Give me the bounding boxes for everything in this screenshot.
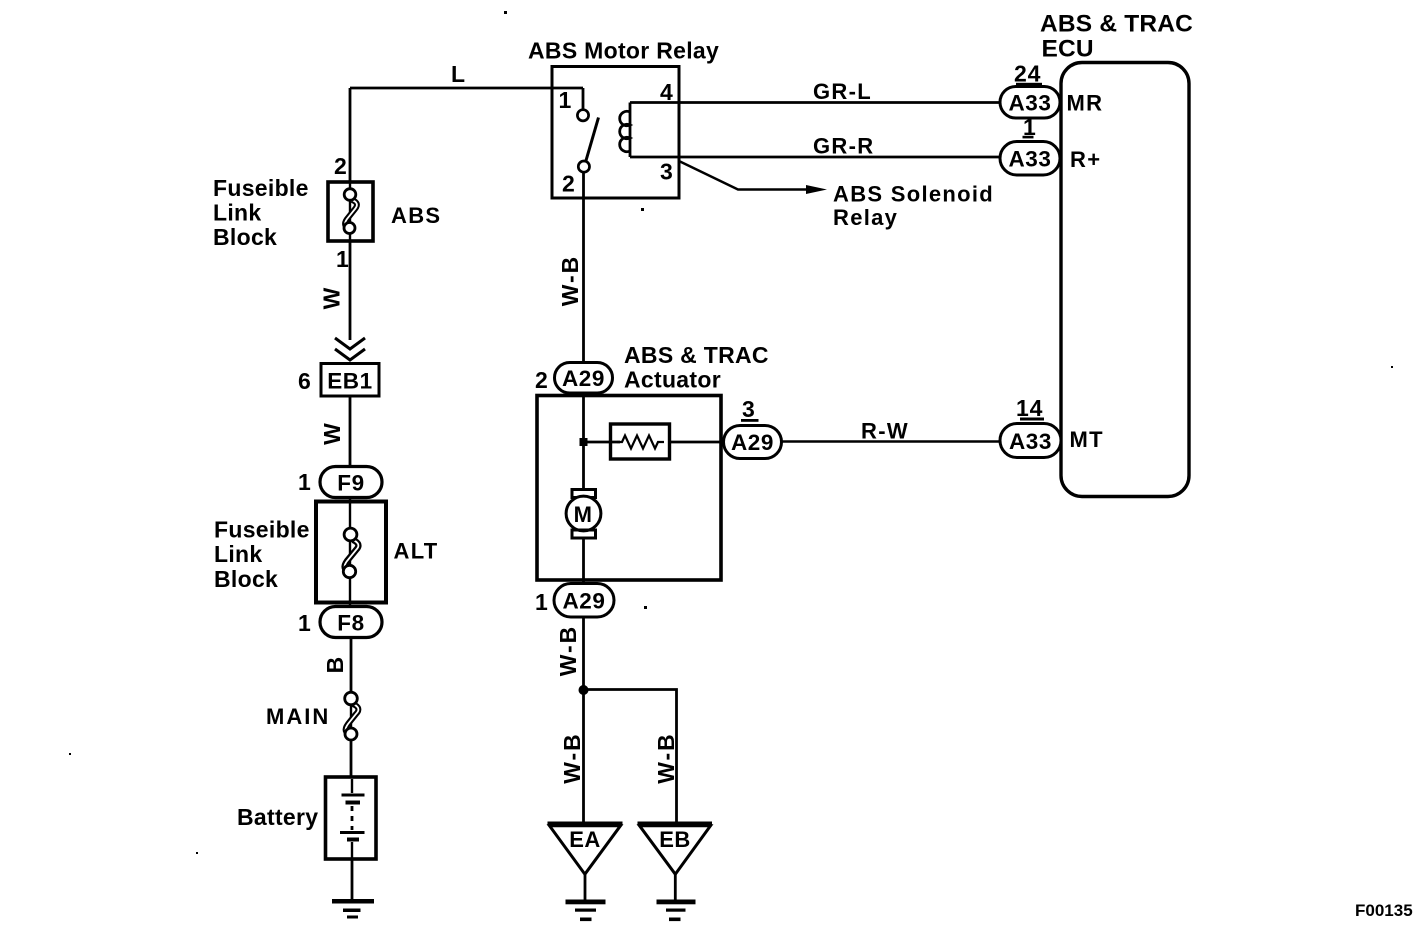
connector F8 xyxy=(320,607,382,638)
wire F8 to MAIN xyxy=(350,638,353,694)
svg-text:ABS & TRAC: ABS & TRAC xyxy=(624,342,769,368)
svg-text:2: 2 xyxy=(334,153,348,179)
wire A29 to EA ground xyxy=(582,617,585,822)
actuator box xyxy=(537,396,721,581)
svg-text:L: L xyxy=(451,61,465,87)
scan specks xyxy=(504,11,507,14)
connector A29 pin 2 xyxy=(555,363,613,394)
svg-text:ABS & TRAC: ABS & TRAC xyxy=(1040,11,1193,38)
svg-text:Block: Block xyxy=(213,224,277,250)
fuse MAIN xyxy=(345,692,359,740)
svg-text:Link: Link xyxy=(213,200,261,226)
svg-text:F00135: F00135 xyxy=(1355,901,1413,920)
resistor xyxy=(587,424,724,459)
svg-text:A29: A29 xyxy=(562,589,605,614)
junction dot xyxy=(580,438,588,446)
wire R-W xyxy=(782,440,1002,442)
wire GR-L xyxy=(630,101,1001,104)
wire fuse to EB1 xyxy=(349,241,352,340)
svg-text:W: W xyxy=(319,286,345,310)
svg-text:M: M xyxy=(574,502,594,527)
svg-text:Link: Link xyxy=(214,541,262,567)
svg-text:ABS: ABS xyxy=(391,203,441,228)
svg-text:2: 2 xyxy=(535,367,549,393)
svg-text:GR-R: GR-R xyxy=(813,134,874,159)
motor M xyxy=(566,490,601,539)
svg-text:ECU: ECU xyxy=(1042,36,1094,63)
solenoid arrow head xyxy=(806,185,827,194)
svg-text:EB: EB xyxy=(659,827,691,852)
svg-text:ALT: ALT xyxy=(394,539,439,564)
connector A33 R+ xyxy=(1000,142,1060,176)
svg-text:A29: A29 xyxy=(731,430,774,455)
svg-text:3: 3 xyxy=(742,396,756,422)
svg-text:1: 1 xyxy=(535,589,549,615)
svg-text:Fuseible: Fuseible xyxy=(214,517,310,543)
connector F9 xyxy=(320,467,382,498)
junction dot xyxy=(579,685,589,695)
svg-text:14: 14 xyxy=(1016,395,1043,421)
relay switch xyxy=(577,88,598,172)
wire down to ABS fuse xyxy=(349,88,352,182)
svg-text:MAIN: MAIN xyxy=(266,704,330,729)
svg-text:24: 24 xyxy=(1014,61,1041,87)
svg-text:W-B: W-B xyxy=(653,732,679,784)
relay coil xyxy=(629,103,632,158)
svg-text:W: W xyxy=(319,421,345,445)
relay box ABS Motor Relay xyxy=(552,67,679,199)
fusible link ALT box xyxy=(316,502,386,603)
svg-text:1: 1 xyxy=(336,246,350,272)
svg-text:ABS Solenoid: ABS Solenoid xyxy=(833,182,994,207)
svg-text:W-B: W-B xyxy=(555,625,581,677)
wire branch to EB ground xyxy=(584,690,677,823)
ground EB xyxy=(638,822,713,922)
ground (battery) xyxy=(332,899,374,919)
svg-text:3: 3 xyxy=(660,159,674,185)
wire EB1 to F9 xyxy=(349,396,352,467)
svg-text:MT: MT xyxy=(1070,427,1104,452)
svg-text:A33: A33 xyxy=(1008,91,1051,116)
svg-text:Fuseible: Fuseible xyxy=(213,175,309,201)
connector A29 pin 1 xyxy=(554,584,614,618)
wire GR-R xyxy=(630,156,1001,159)
svg-text:2: 2 xyxy=(562,171,576,197)
connector A33 MR xyxy=(1000,87,1060,119)
svg-text:Block: Block xyxy=(214,566,278,592)
wire battery to ground xyxy=(351,859,354,900)
svg-text:6: 6 xyxy=(298,368,312,394)
wire inside actuator xyxy=(582,393,585,490)
svg-text:W-B: W-B xyxy=(559,732,585,784)
wire motor to A29 pin1 xyxy=(582,538,585,584)
connector EB1 xyxy=(321,364,379,397)
svg-text:ABS Motor Relay: ABS Motor Relay xyxy=(528,38,719,64)
svg-text:Actuator: Actuator xyxy=(624,367,721,393)
wire MAIN to battery xyxy=(350,740,353,777)
svg-text:A29: A29 xyxy=(562,366,605,391)
svg-text:R-W: R-W xyxy=(861,419,909,444)
wire L horizontal xyxy=(350,87,583,90)
svg-text:F9: F9 xyxy=(337,471,364,496)
svg-text:A33: A33 xyxy=(1009,429,1052,454)
svg-text:B: B xyxy=(322,655,348,674)
svg-text:Battery: Battery xyxy=(237,804,318,830)
svg-text:MR: MR xyxy=(1067,91,1104,116)
connector A29 pin 3 xyxy=(724,426,782,459)
svg-text:R+: R+ xyxy=(1070,147,1101,172)
battery xyxy=(326,777,377,859)
svg-text:1: 1 xyxy=(298,469,312,495)
chevron arrows xyxy=(335,338,365,349)
svg-text:EB1: EB1 xyxy=(327,369,373,394)
svg-text:EA: EA xyxy=(569,827,601,852)
svg-text:GR-L: GR-L xyxy=(813,79,872,104)
svg-text:1: 1 xyxy=(298,610,312,636)
connector A33 MT xyxy=(1000,424,1061,458)
wire relay pin2 to actuator xyxy=(582,172,585,363)
ground EA xyxy=(548,822,623,922)
svg-text:Relay: Relay xyxy=(833,205,898,230)
ECU box xyxy=(1061,63,1189,497)
fusible link ABS box xyxy=(328,182,373,241)
svg-text:F8: F8 xyxy=(337,611,364,636)
svg-text:1: 1 xyxy=(559,87,573,113)
solenoid pointer line xyxy=(680,162,806,190)
svg-text:A33: A33 xyxy=(1008,147,1051,172)
svg-text:W-B: W-B xyxy=(557,255,583,307)
